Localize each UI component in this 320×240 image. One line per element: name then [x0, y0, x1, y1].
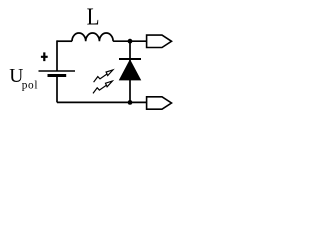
svg-text:L: L — [87, 3, 100, 30]
battery plus sign — [41, 52, 48, 61]
diode D cathode bar — [119, 58, 141, 60]
output connector bottom — [147, 97, 172, 109]
battery short thick plate — [48, 74, 67, 77]
wire inductor to top connector — [113, 40, 147, 42]
photodiode light arrow 2 — [93, 81, 112, 93]
battery long plate — [39, 70, 76, 72]
photodiode light arrow 1 — [94, 70, 113, 82]
diode D triangle — [119, 60, 140, 80]
wire left branch lower — [56, 76, 58, 103]
right branch wire — [129, 41, 131, 102]
wire left branch upper — [56, 40, 58, 71]
bottom wire — [57, 101, 147, 103]
wire top-left to inductor — [57, 40, 72, 42]
inductor L — [72, 33, 113, 41]
output connector top — [147, 35, 172, 47]
svg-text:pol: pol — [22, 80, 39, 92]
junction node bottom — [128, 100, 133, 105]
junction node top — [128, 39, 133, 44]
